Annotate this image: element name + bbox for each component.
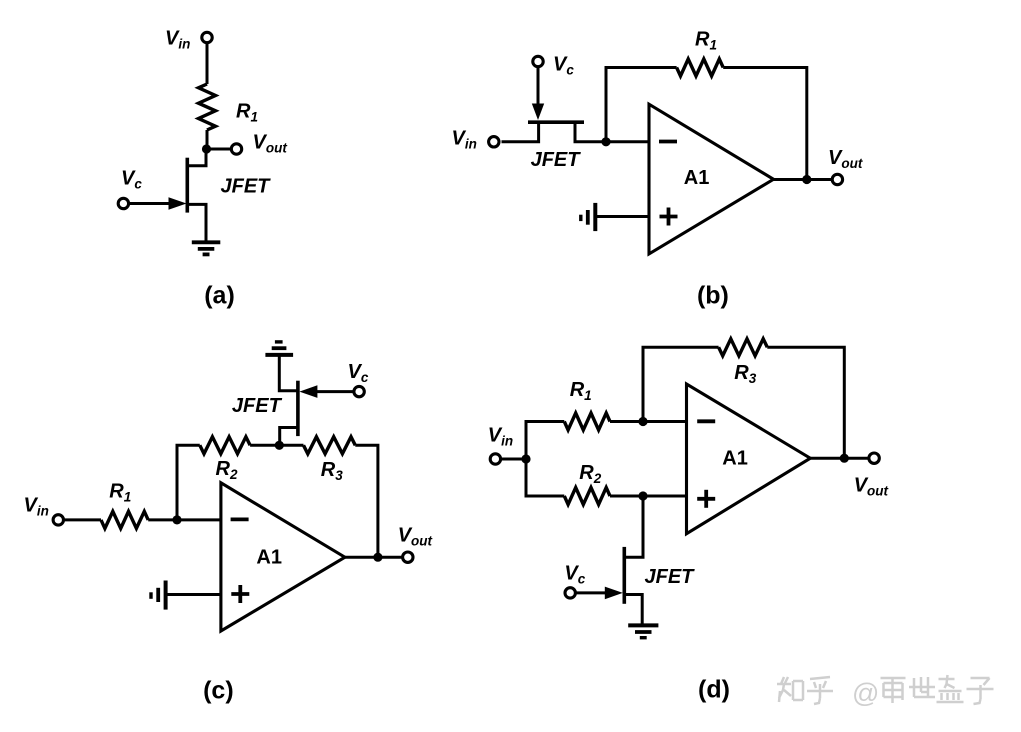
JFET (a) drain stub: [187, 149, 206, 166]
resistor R1 (c): [101, 511, 148, 528]
resistor R3 (c): [304, 437, 356, 454]
terminal Vc (d): [565, 588, 575, 598]
JFET (c) gate arrowhead: [299, 385, 317, 398]
terminal Vout (a): [231, 144, 241, 154]
JFET (a) gate arrowhead: [169, 197, 187, 210]
resistor R2 (c): [200, 437, 250, 454]
svg-text:(d): (d): [698, 676, 730, 704]
wire op-amp output (b): [774, 178, 833, 181]
wire Vin to R1 (c): [64, 518, 102, 521]
wire node to Vout terminal (a): [207, 148, 232, 151]
node inverting input (d): [638, 417, 647, 426]
wire feedback top right and down (d): [767, 347, 844, 458]
wire gate from Vc (a): [128, 202, 174, 205]
JFET (d) gate arrowhead: [605, 587, 623, 600]
svg-text:JFET: JFET: [221, 176, 272, 198]
wire feedback down right (b): [805, 66, 808, 180]
JFET (a) source stub: [187, 204, 206, 242]
transistor JFET (b) channel: [528, 120, 584, 124]
ground (a): [192, 242, 221, 254]
plus sign (b): [660, 208, 678, 226]
wire node to R3 (c): [279, 444, 303, 447]
wire ground to plus input (c): [166, 593, 221, 596]
ground (c) top inverted: [265, 342, 293, 355]
node R2-R3 junction (c): [275, 441, 284, 450]
op-amp A1 (b): [649, 104, 774, 254]
wire node to op-amp minus (d): [643, 420, 687, 423]
resistor R1 (d): [564, 413, 610, 430]
minus sign (b): [659, 140, 677, 144]
wire R2 to node (c): [250, 444, 279, 447]
gate arrowhead (b): [532, 104, 544, 121]
wire ground down to drain (c): [279, 355, 298, 391]
minus sign (d): [697, 419, 715, 423]
terminal Vc (c): [354, 386, 364, 396]
node drain junction (a): [202, 144, 211, 153]
svg-text:A1: A1: [684, 167, 710, 189]
terminal Vc (a): [118, 198, 128, 208]
watermark char 世: [909, 677, 935, 697]
JFET (b) source stub to Vin: [502, 122, 539, 142]
node inverting input (c): [172, 515, 181, 524]
node output (d): [840, 454, 849, 463]
wire gate from Vc (d): [575, 591, 608, 594]
wire Vc down to gate (b): [537, 67, 540, 106]
svg-text:A1: A1: [256, 547, 282, 569]
svg-text:JFET: JFET: [645, 566, 696, 588]
JFET (c) source stub: [280, 428, 298, 446]
terminal Vin (c): [53, 515, 63, 525]
watermark char 再: [881, 678, 906, 703]
transistor JFET (d) channel: [622, 547, 626, 604]
svg-text:JFET: JFET: [232, 395, 283, 417]
ground (b): [581, 203, 596, 231]
transistor JFET (a) channel: [186, 158, 190, 213]
watermark char 知: [777, 677, 803, 702]
op-amp A1 (c): [221, 483, 345, 631]
terminal Vc (b): [533, 56, 543, 66]
svg-text:@: @: [852, 678, 879, 708]
JFET (d) source stub: [624, 595, 642, 626]
terminal Vin (d): [490, 454, 500, 464]
wire node to op-amp (b): [606, 140, 649, 143]
wire R3 to feedback corner (c): [355, 445, 378, 557]
terminal Vout (c): [403, 552, 413, 562]
wire R2 to node (d): [610, 495, 643, 498]
watermark char 子: [967, 678, 994, 704]
svg-text:A1: A1: [722, 448, 748, 470]
wire Vin to R1 top (a): [206, 43, 209, 84]
terminal Vout (b): [832, 174, 842, 184]
wire branch up to R1 (d): [526, 422, 564, 460]
JFET (b) drain stub: [575, 122, 606, 142]
wire feedback up (b): [605, 68, 608, 142]
wire gate from Vc (c): [313, 390, 354, 393]
resistor R1 (b): [677, 59, 724, 76]
wire node to op-amp plus (d): [643, 495, 687, 498]
wire node down to JFET drain (d): [624, 496, 643, 557]
watermark char 乎: [807, 677, 833, 704]
minus sign (c): [231, 518, 249, 522]
wire branch down to R2 (d): [526, 459, 564, 496]
resistor R3 (d): [719, 339, 768, 356]
wire node to op-amp (c): [177, 518, 221, 521]
wire op-amp output (c): [345, 556, 403, 559]
wire R1 bottom to node (a): [206, 130, 209, 152]
op-amp A1 (d): [687, 384, 811, 534]
transistor JFET (c) channel: [296, 381, 300, 436]
wire feedback top right (b): [723, 66, 807, 69]
wire feedback top left (b): [605, 66, 677, 69]
svg-text:(b): (b): [697, 282, 729, 310]
svg-text:(c): (c): [203, 677, 234, 705]
terminal Vin (a): [202, 32, 212, 42]
node output (b): [802, 175, 811, 184]
plus sign (c): [231, 585, 249, 603]
node output (c): [373, 553, 382, 562]
wire R1 to node (c): [148, 518, 177, 521]
wire feedback up (d): [643, 347, 719, 421]
terminal Vout (d): [869, 453, 879, 463]
ground (d): [628, 625, 658, 637]
terminal Vin (b): [489, 137, 499, 147]
wire op-amp output (d): [810, 457, 869, 460]
svg-text:JFET: JFET: [531, 149, 582, 171]
ground (c): [151, 581, 166, 610]
resistor R1 (a): [199, 84, 216, 130]
svg-text:(a): (a): [204, 282, 235, 310]
wire corner to R2 (c): [177, 445, 200, 521]
node inverting input (b): [601, 137, 610, 146]
watermark char 孟: [937, 675, 964, 702]
wire Vin to node (d): [501, 458, 526, 461]
watermark 知乎 @再世孟子: [777, 675, 994, 708]
wire R1 to node (d): [610, 420, 643, 423]
node noninverting input (d): [638, 491, 647, 500]
node input split (d): [521, 454, 530, 463]
resistor R2 (d): [564, 488, 610, 505]
wire ground to plus input (b): [595, 215, 649, 218]
plus sign (d): [697, 490, 715, 508]
